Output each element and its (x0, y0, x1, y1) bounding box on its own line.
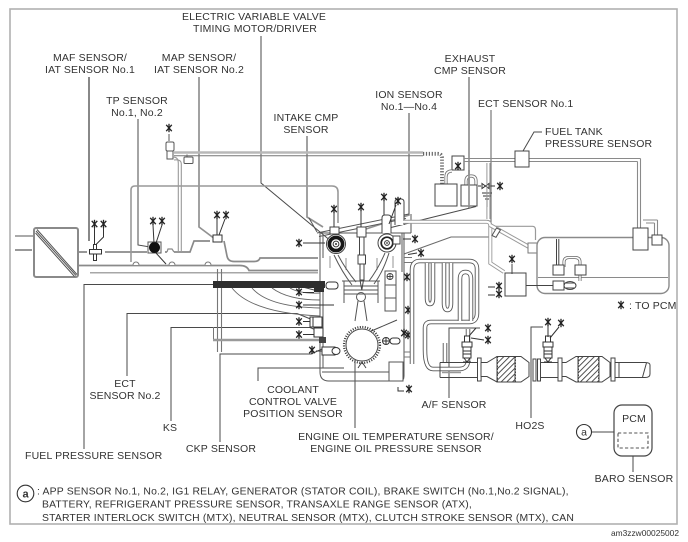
svg-text:FUEL TANK: FUEL TANK (545, 126, 603, 138)
exhaust CMP sprocket (378, 234, 396, 252)
svg-text:a: a (22, 489, 29, 501)
svg-text:POSITION SENSOR: POSITION SENSOR (243, 408, 343, 420)
ECT2 sensor (310, 317, 322, 327)
canister box 1 (435, 184, 457, 206)
flange pair 2 (533, 359, 536, 381)
MAP sensor (213, 235, 222, 242)
wire: CKP leader (220, 349, 322, 442)
oil pan lower box (389, 362, 403, 381)
svg-text:PCM: PCM (622, 413, 646, 425)
stubs engine to serpentine (404, 258, 412, 358)
air cleaner box (34, 228, 78, 277)
cam chain guides (334, 253, 389, 285)
oil filler structure (395, 199, 404, 225)
component: EVAP shut valve (168, 134, 170, 141)
purge tubes (446, 171, 476, 185)
fuel tank pressure sensor (515, 151, 529, 167)
PCM box (614, 405, 652, 456)
marker: TP asterisks (150, 217, 156, 225)
svg-text:FUEL PRESSURE SENSOR: FUEL PRESSURE SENSOR (25, 450, 163, 462)
A/F sensor (462, 336, 472, 362)
svg-text:am3zzw00025002: am3zzw00025002 (611, 528, 679, 538)
hose: EVAP valve to duct (double) (173, 157, 181, 252)
pipe: EVAP line (174, 151, 423, 154)
wire: ECT2 leader (127, 314, 313, 377)
marker: MAF asterisks (92, 220, 98, 228)
purge line to canister (tube) (403, 222, 504, 272)
wire: HO2S leader (531, 327, 543, 418)
fitting below check valve (482, 193, 492, 207)
HO2S sensor (543, 336, 553, 362)
footnote a circle (17, 485, 34, 502)
svg-text:ENGINE OIL PRESSURE SENSOR: ENGINE OIL PRESSURE SENSOR (310, 443, 482, 455)
svg-text:IAT SENSOR No.1: IAT SENSOR No.1 (45, 64, 135, 76)
hose: manifold loop (131, 186, 338, 262)
purge solenoid (452, 156, 464, 170)
svg-text:MAF SENSOR/: MAF SENSOR/ (53, 52, 127, 64)
svg-text:TIMING MOTOR/DRIVER: TIMING MOTOR/DRIVER (193, 23, 317, 35)
grey heater pipe (213, 339, 320, 342)
ignition coil / spark plug center (357, 227, 366, 290)
wire: fuel tank pressure sensor leader (523, 132, 542, 151)
catalytic converter 1 (481, 357, 529, 383)
svg-text:CMP SENSOR: CMP SENSOR (434, 65, 506, 77)
svg-text:SENSOR: SENSOR (283, 124, 329, 136)
engine block left lower edge (320, 280, 402, 381)
svg-text:SENSOR No.2: SENSOR No.2 (89, 390, 160, 402)
svg-text:CKP SENSOR: CKP SENSOR (186, 443, 256, 455)
wire: KS leader (171, 328, 316, 422)
fuel pump module (633, 228, 648, 250)
wire: exhaust CMP leader (grey) (468, 77, 470, 208)
bracket double line left of engine (218, 269, 222, 352)
svg-text:EXHAUST: EXHAUST (445, 53, 496, 65)
svg-text:ION SENSOR: ION SENSOR (375, 89, 443, 101)
marker: MAP asterisks (214, 211, 220, 219)
serpentine exit leg (443, 343, 448, 362)
serpentine finger 1 (427, 263, 433, 304)
tail pipe (615, 363, 650, 378)
oil pan lines (322, 340, 404, 381)
catalytic converter 2 (562, 357, 610, 383)
exhaust front pipe (440, 363, 477, 378)
svg-text:IAT SENSOR No.2: IAT SENSOR No.2 (154, 64, 244, 76)
intake runner curves (232, 288, 320, 316)
fuel line fitting (492, 228, 501, 237)
serpentine outer P tube (412, 261, 477, 369)
check valve (478, 184, 495, 189)
wire: intake CMP leader (grey) (307, 136, 323, 227)
svg-text:HO2S: HO2S (515, 420, 544, 432)
svg-text:COOLANT: COOLANT (267, 384, 319, 396)
svg-text:BARO SENSOR: BARO SENSOR (595, 473, 674, 485)
flange 4 (611, 358, 615, 381)
wire: EVVT leader (261, 36, 332, 242)
svg-text:No.1—No.4: No.1—No.4 (381, 101, 437, 113)
svg-text:ECT SENSOR No.1: ECT SENSOR No.1 (478, 98, 573, 110)
fuel rail (dark band) (213, 281, 325, 288)
canister box 2 (461, 185, 477, 206)
svg-text:KS: KS (163, 422, 177, 434)
oil sensors top of coolant valve (383, 338, 401, 345)
svg-text:No.1, No.2: No.1, No.2 (111, 107, 163, 119)
air inlet (15, 235, 34, 237)
pipe seg 2 (541, 363, 558, 378)
wire: A/F leader (449, 328, 480, 398)
KS sensor (314, 328, 323, 337)
intake duct upper outline (78, 241, 318, 262)
wire: MAP leader (grey) (199, 77, 215, 239)
BARO sensor dashed box (618, 433, 648, 448)
svg-text:a: a (581, 427, 587, 439)
svg-text:PRESSURE SENSOR: PRESSURE SENSOR (545, 138, 653, 150)
duct lower second line (90, 272, 318, 274)
vapor line to tank (492, 226, 535, 240)
cluster asterisks (296, 288, 302, 296)
spring-wrapped hose (423, 154, 442, 184)
svg-text:: APP SENSOR No.1, No.2, IG1 R: : APP SENSOR No.1, No.2, IG1 RELAY, GENE… (37, 487, 569, 498)
svg-text:MAP SENSOR/: MAP SENSOR/ (162, 52, 236, 64)
svg-text:BATTERY, REFRIGERANT PRESSURE: BATTERY, REFRIGERANT PRESSURE SENSOR, TR… (42, 500, 472, 511)
wire: exhaust CMP diagonal (391, 207, 476, 228)
air cleaner element diagonal (36, 230, 78, 277)
injector end blob (314, 288, 324, 292)
svg-text:CONTROL VALVE: CONTROL VALVE (249, 396, 337, 408)
EGR valve boxes right (385, 271, 396, 311)
flange 1 (478, 358, 482, 381)
canister (right) (505, 273, 526, 296)
cylinder / piston (342, 281, 380, 321)
vacuum hose loop (131, 186, 338, 262)
wire: fuel pressure leader (84, 285, 318, 450)
plenum slant edges (309, 214, 409, 237)
wire: TP leader (138, 119, 150, 247)
CKP sensor (322, 347, 335, 355)
EVVT motor cap (330, 227, 339, 234)
svg-text:ENGINE OIL TEMPERATURE SENSOR/: ENGINE OIL TEMPERATURE SENSOR/ (298, 431, 494, 443)
duct nipples (133, 262, 211, 265)
MAF sensor (90, 245, 102, 261)
svg-text:ELECTRIC VARIABLE VALVE: ELECTRIC VARIABLE VALVE (182, 11, 326, 23)
valve detail lines (330, 256, 393, 270)
vapor tee up-leg (487, 163, 490, 219)
wire: ECT1 leader (404, 110, 491, 254)
coolant control valve (toothed circle) (344, 327, 380, 363)
a circle (577, 425, 592, 440)
fuel pressure sensor pill (326, 282, 338, 289)
svg-text:ECT: ECT (114, 378, 136, 390)
intake CMP sprocket (327, 235, 346, 254)
svg-text:STARTER INTERLOCK SWITCH (MTX): STARTER INTERLOCK SWITCH (MTX), NEUTRAL … (42, 513, 574, 524)
wire: engine oil leader (355, 320, 397, 428)
head top edge (320, 214, 411, 280)
TP sensor (black) (148, 242, 161, 253)
svg-text:INTAKE CMP: INTAKE CMP (274, 112, 339, 124)
wire: MAF leader (88, 77, 90, 241)
wire: a-circle to PCM (592, 431, 615, 433)
svg-text:TP SENSOR: TP SENSOR (106, 95, 168, 107)
fuel filler tube (490, 225, 530, 248)
CMP sensor box right (393, 236, 400, 244)
legend asterisk for TO PCM (618, 301, 624, 309)
serpentine finger 2 (444, 263, 451, 310)
flange 3 (558, 358, 562, 381)
wire: BARO leader (632, 448, 634, 472)
left engine sensor cluster (310, 317, 340, 355)
fuel feed line to tank (464, 159, 658, 236)
exhaust CMP housing (382, 215, 391, 233)
serpentine n-arch (460, 272, 471, 321)
intake duct lower outline (78, 266, 318, 271)
wire: ion sensor leader (grey) (366, 113, 409, 229)
svg-text:A/F SENSOR: A/F SENSOR (421, 399, 486, 411)
engine head/block right edge (402, 233, 404, 340)
fuel/evap hard line across top (174, 153, 423, 156)
heater pipe fitting (319, 337, 326, 343)
svg-text:: TO PCM: : TO PCM (629, 300, 677, 312)
wire: exhaust CMP leader overlay (468, 170, 470, 208)
EVAP component upper-left (166, 134, 193, 164)
engine top asterisks (331, 205, 337, 213)
fuel tank (537, 238, 669, 294)
tank internals (553, 239, 586, 290)
wire: coolant valve leader (258, 368, 344, 381)
